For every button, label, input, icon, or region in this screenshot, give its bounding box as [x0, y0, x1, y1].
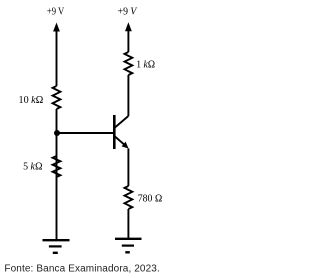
svg-text:+9 V: +9 V [47, 6, 64, 18]
svg-text:+9 V: +9 V [118, 6, 139, 17]
svg-text:5 kΩ: 5 kΩ [23, 161, 43, 172]
svg-text:10 kΩ: 10 kΩ [19, 95, 44, 106]
svg-text:1 kΩ: 1 kΩ [136, 59, 155, 70]
svg-text:Fonte: Banca Examinadora, 2023: Fonte: Banca Examinadora, 2023. [4, 264, 159, 275]
svg-text:780 Ω: 780 Ω [138, 193, 163, 204]
